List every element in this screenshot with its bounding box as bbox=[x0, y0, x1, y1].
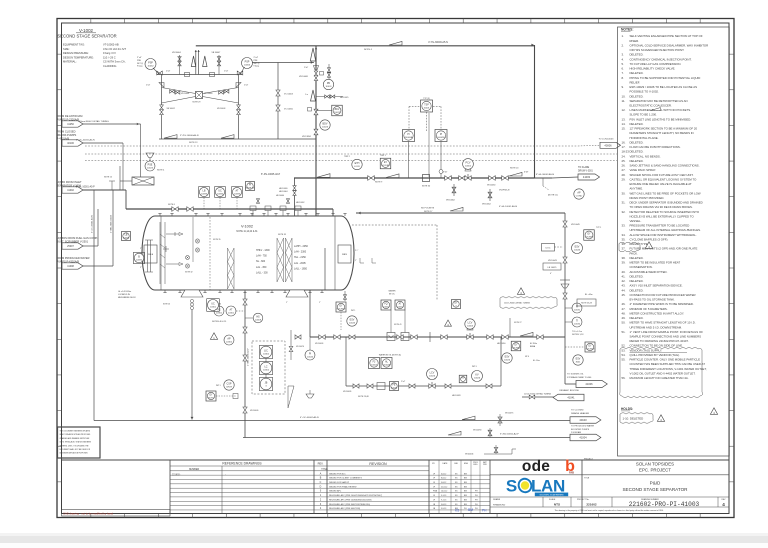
oil header spec break bbox=[429, 332, 431, 342]
svg-text:RE-ISSUED AFC (PRN 3087/118/TB: RE-ISSUED AFC (PRN 3087/118/TB/84/130) bbox=[329, 503, 370, 506]
svg-text:1 in: 1 in bbox=[305, 94, 308, 96]
sussex branch bbox=[564, 337, 566, 384]
svg-text:NUMBER: NUMBER bbox=[189, 468, 200, 471]
instrument bbox=[572, 243, 583, 254]
instrument (square) bbox=[332, 105, 343, 116]
svg-text:25.: 25. bbox=[622, 159, 626, 163]
valve bbox=[160, 109, 164, 114]
inlet line drop bbox=[125, 190, 127, 209]
castell interlock box bbox=[196, 92, 203, 99]
interlock crossover lower right bbox=[203, 97, 239, 104]
vessel saddle supports bbox=[181, 290, 308, 297]
svg-text:10025: 10025 bbox=[147, 168, 154, 170]
svg-text:PI: PI bbox=[440, 134, 443, 136]
svg-text:10301: 10301 bbox=[216, 313, 223, 315]
svg-text:10002: 10002 bbox=[465, 166, 472, 168]
svg-text:OPTIONAL COLD-SERVICE DISALARM: OPTIONAL COLD-SERVICE DISALARMER, WAX IN… bbox=[630, 43, 709, 47]
svg-text:DRAWN: DRAWN bbox=[493, 498, 501, 501]
svg-text:41004: 41004 bbox=[579, 436, 587, 440]
svg-text:NOTE 35: NOTE 35 bbox=[278, 234, 286, 236]
svg-text:VB 10026: VB 10026 bbox=[343, 391, 351, 393]
instrument (square) bbox=[435, 130, 447, 142]
instrument (square) bbox=[459, 375, 467, 383]
instrument (square) bbox=[511, 341, 521, 351]
valve bbox=[157, 71, 163, 75]
instrument air dashed bus third bbox=[85, 160, 617, 162]
svg-text:LOCKED: LOCKED bbox=[337, 308, 346, 310]
svg-text:11.: 11. bbox=[622, 99, 626, 103]
instrument (square) bbox=[421, 100, 433, 112]
instrument (square) bbox=[380, 158, 391, 169]
signal drop B bbox=[440, 142, 442, 179]
svg-text:RISER.: RISER. bbox=[630, 39, 640, 43]
valve body bbox=[467, 335, 473, 340]
ode logo bbox=[522, 458, 550, 475]
svg-text:ENG: ENG bbox=[464, 463, 469, 465]
svg-text:14-9-12: 14-9-12 bbox=[441, 491, 447, 493]
svg-text:RE-ISSUED AFC (PRN 10047/CB/09: RE-ISSUED AFC (PRN 10047/CB/09/04/217/02… bbox=[329, 494, 382, 497]
PSV discharge header bbox=[157, 74, 242, 76]
svg-text:30.: 30. bbox=[622, 191, 626, 195]
svg-text:LAHH - 2450: LAHH - 2450 bbox=[294, 245, 308, 248]
valve bbox=[237, 105, 241, 110]
slope symbol bbox=[221, 135, 234, 139]
svg-text:2"x4": 2"x4" bbox=[146, 85, 151, 87]
revision triangle bbox=[645, 242, 652, 249]
svg-text:TO PRODUCED WATER: TO PRODUCED WATER bbox=[571, 425, 595, 428]
svg-text:ISSUED FOR CLIENT COMMENTS: ISSUED FOR CLIENT COMMENTS bbox=[329, 478, 362, 480]
svg-text:TITLE: TITLE bbox=[584, 477, 590, 479]
svg-text:VB 10060: VB 10060 bbox=[204, 93, 212, 95]
instrument (square) bbox=[452, 300, 461, 309]
svg-text:VENDOR (TAG) SUPPLY.: VENDOR (TAG) SUPPLY. bbox=[630, 348, 663, 352]
svg-text:SLOPE TO BE 1:200.: SLOPE TO BE 1:200. bbox=[630, 113, 658, 117]
right head drain stub bbox=[344, 291, 346, 301]
svg-text:56.: 56. bbox=[622, 376, 626, 380]
svg-text:9-9-13: 9-9-13 bbox=[441, 508, 446, 510]
svg-text:ESV: ESV bbox=[505, 356, 510, 359]
svg-text:DECK UNDER SEPARATOR IS BUNDED: DECK UNDER SEPARATOR IS BUNDED AND DRAIN… bbox=[630, 201, 703, 205]
svg-text:10045: 10045 bbox=[349, 323, 356, 325]
svg-text:UPSTREAM OF ALL INTERNAL GRATI: UPSTREAM OF ALL INTERNAL GRATINGS /BAFFL… bbox=[630, 228, 702, 232]
svg-text:TITLE: TITLE bbox=[321, 468, 328, 471]
vessel right sump box WB'B bbox=[338, 245, 351, 263]
svg-text:10004: 10004 bbox=[371, 364, 378, 366]
svg-text:NOTES:: NOTES: bbox=[621, 27, 633, 31]
vent triangle bbox=[191, 56, 195, 67]
svg-text:NOTE 15: NOTE 15 bbox=[104, 177, 112, 179]
svg-text:10095: 10095 bbox=[234, 194, 241, 196]
svg-text:ode: ode bbox=[522, 458, 550, 475]
svg-text:3.6m ID x10.0m S/T: 3.6m ID x10.0m S/T bbox=[103, 47, 126, 51]
svg-text:UC: UC bbox=[218, 190, 222, 193]
svg-text:NOTE 6: NOTE 6 bbox=[168, 204, 175, 206]
bypass valve column bbox=[328, 64, 330, 84]
svg-text:DELETED.: DELETED. bbox=[630, 71, 644, 75]
PSV 10062 instrument bbox=[145, 59, 156, 70]
svg-text:4"-OC-40002-A5-N: 4"-OC-40002-A5-N bbox=[300, 416, 319, 419]
valve bbox=[563, 221, 567, 227]
antifoam line bbox=[83, 123, 141, 125]
svg-text:PI: PI bbox=[407, 134, 410, 136]
svg-text:10026: 10026 bbox=[391, 387, 398, 389]
closed drains line bbox=[83, 142, 123, 144]
svg-text:HIGH RELIABILITY CHECK VALVE.: HIGH RELIABILITY CHECK VALVE. bbox=[630, 67, 676, 71]
funnel on right drop bbox=[561, 284, 569, 288]
svg-text:LAH - 750: LAH - 750 bbox=[256, 255, 267, 258]
signal riser TSP bbox=[426, 112, 428, 131]
revision triangle bbox=[657, 415, 664, 422]
revision table rows bbox=[320, 472, 479, 510]
svg-text:ENSURE ONE RELIEF VALVE IS AVA: ENSURE ONE RELIEF VALVE IS AVAILABLE AT bbox=[630, 182, 692, 186]
svg-text:PRESSURE TRANSMITTER TO BE LOC: PRESSURE TRANSMITTER TO BE LOCATED bbox=[630, 224, 690, 228]
PCV 10002 pilot bbox=[463, 159, 474, 170]
gas outlet header line bbox=[196, 45, 534, 47]
svg-text:NOTE 20: NOTE 20 bbox=[510, 168, 519, 170]
interlock crossover upper left bbox=[162, 88, 196, 94]
svg-text:VB 30007: VB 30007 bbox=[212, 52, 222, 54]
svg-text:TI: TI bbox=[576, 320, 578, 323]
CAD drawing warning box bbox=[62, 510, 171, 517]
svg-text:CSP: CSP bbox=[227, 383, 232, 386]
valve bbox=[397, 335, 403, 340]
svg-text:BEMA: BEMA bbox=[530, 345, 536, 348]
valve bbox=[487, 335, 493, 340]
instrument (square) bbox=[395, 300, 405, 310]
svg-text:ESH-10029 / 10026 TO BE LOCATE: ESH-10029 / 10026 TO BE LOCATED AS CLOSE… bbox=[630, 85, 698, 89]
svg-text:TSP: TSP bbox=[424, 105, 429, 107]
svg-text:NOTES 40 & 51: NOTES 40 & 51 bbox=[212, 321, 227, 323]
svg-text:LAL - 2005: LAL - 2005 bbox=[294, 262, 306, 265]
relief header line bbox=[159, 138, 316, 140]
svg-text:This drawing is the property o: This drawing is the property of ODE and … bbox=[555, 509, 664, 512]
svg-text:REVISION: REVISION bbox=[369, 462, 387, 466]
source flag: from closed drains pumps bbox=[57, 130, 84, 147]
flare drop line bbox=[534, 45, 536, 178]
svg-text:10301: 10301 bbox=[228, 313, 235, 315]
gas outlet riser bbox=[315, 46, 317, 217]
svg-text:VB 10043: VB 10043 bbox=[548, 260, 558, 262]
instrument bbox=[207, 299, 220, 312]
svg-text:49.: 49. bbox=[622, 316, 626, 320]
vessel right head seam bbox=[334, 216, 336, 290]
svg-text:METER TO HAVE STRAIGHT LENGTHS: METER TO HAVE STRAIGHT LENGTHS OF 10 I.D… bbox=[630, 321, 696, 325]
svg-text:9-8-13: 9-8-13 bbox=[441, 504, 446, 506]
svg-text:2"-WD-40013-A0-N: 2"-WD-40013-A0-N bbox=[110, 215, 113, 233]
svg-text:1-10. DELETED: 1-10. DELETED bbox=[623, 417, 644, 421]
svg-text:HB 10044: HB 10044 bbox=[279, 191, 287, 193]
svg-text:10003: 10003 bbox=[467, 326, 474, 328]
HB 10025 branch bbox=[316, 96, 343, 98]
inner border frame bbox=[62, 23, 730, 514]
svg-text:DETECTOR RELATED TO SOURCE INS: DETECTOR RELATED TO SOURCE INSERTED INTO bbox=[630, 210, 700, 214]
svg-text:OR H2S SCAVENGER INJECTION POI: OR H2S SCAVENGER INJECTION POINT. bbox=[630, 48, 685, 52]
svg-text:10302: 10302 bbox=[263, 370, 270, 372]
valve bbox=[563, 257, 567, 263]
svg-text:PSE: PSE bbox=[148, 164, 153, 167]
svg-text:NOTE 17: NOTE 17 bbox=[424, 211, 433, 213]
svg-text:NOTE 4: NOTE 4 bbox=[364, 49, 373, 51]
instrument (square) bbox=[390, 382, 399, 391]
detail tubing revision cloud bbox=[500, 297, 557, 309]
valve bbox=[445, 176, 452, 181]
svg-text:38.: 38. bbox=[622, 256, 626, 260]
svg-text:LOCATED IN: LOCATED IN bbox=[118, 293, 130, 296]
svg-text:SCALE: SCALE bbox=[549, 498, 556, 501]
svg-text:HB 10030: HB 10030 bbox=[279, 188, 287, 190]
svg-text:52.: 52. bbox=[622, 344, 626, 348]
svg-text:COND: COND bbox=[576, 196, 583, 198]
svg-text:BL +45m: BL +45m bbox=[585, 294, 593, 296]
valve bbox=[314, 129, 318, 135]
svg-text:2"x4": 2"x4" bbox=[244, 85, 249, 87]
svg-text:DELETED.: DELETED. bbox=[630, 288, 644, 292]
valve bbox=[488, 192, 492, 198]
svg-text:21-9-12: 21-9-12 bbox=[441, 486, 447, 488]
svg-text:UPSTREAM AND 5 I.D. DOWNSTREAM: UPSTREAM AND 5 I.D. DOWNSTREAM. bbox=[630, 325, 683, 329]
valve bbox=[349, 335, 355, 339]
svg-text:4: 4 bbox=[722, 502, 725, 507]
svg-text:ISSUED FOR FINAL REVIEW: ISSUED FOR FINAL REVIEW bbox=[329, 485, 357, 488]
valve bbox=[494, 447, 498, 452]
svg-text:WB'A: WB'A bbox=[148, 253, 154, 256]
instrument (square) bbox=[246, 182, 256, 191]
svg-text:29.: 29. bbox=[622, 177, 626, 181]
vent triangle bbox=[311, 90, 316, 101]
valve bbox=[502, 335, 508, 340]
svg-text:10062: 10062 bbox=[147, 66, 154, 68]
valve bbox=[537, 335, 543, 340]
svg-text:221602: 221602 bbox=[586, 502, 597, 506]
svg-text:48.: 48. bbox=[622, 311, 626, 315]
svg-text:P.HAMMOND: P.HAMMOND bbox=[493, 504, 506, 507]
svg-text:REFERENCE DRAWINGS: REFERENCE DRAWINGS bbox=[222, 462, 262, 466]
svg-text:BY-PASS TO OIL STORAGE TANK.: BY-PASS TO OIL STORAGE TANK. bbox=[630, 298, 676, 302]
svg-text:PIPING TO BE SUPPORTED FOR POT: PIPING TO BE SUPPORTED FOR POTENTIAL LIQ… bbox=[630, 76, 701, 80]
valve bbox=[160, 105, 164, 110]
valve bbox=[243, 299, 247, 305]
source flag: organic biocide bbox=[553, 394, 584, 401]
instrument bbox=[259, 377, 272, 390]
valve bbox=[276, 90, 280, 96]
svg-text:VB 10090: VB 10090 bbox=[473, 430, 481, 432]
FO circle on signal drop bbox=[439, 170, 443, 174]
svg-text:ELECTROSTATIC COALESCER.: ELECTROSTATIC COALESCER. bbox=[630, 104, 672, 108]
revision triangle bbox=[210, 333, 217, 340]
svg-text:S: S bbox=[506, 477, 517, 496]
svg-text:3041: 3041 bbox=[576, 362, 582, 364]
instrument air dashed bus lower bbox=[85, 153, 617, 155]
valve bbox=[334, 335, 340, 340]
svg-text:STORAGE TANK T-1400: STORAGE TANK T-1400 bbox=[567, 376, 592, 379]
svg-text:TO FUTURE LLP GAS COMPRESSION.: TO FUTURE LLP GAS COMPRESSION. bbox=[630, 62, 682, 66]
svg-text:PH: PH bbox=[482, 509, 487, 513]
valve bbox=[459, 176, 466, 181]
svg-text:WATER IN OIL (NOTE 41): WATER IN OIL (NOTE 41) bbox=[379, 354, 402, 357]
instrument bbox=[215, 187, 226, 198]
instrument (square) bbox=[369, 358, 380, 369]
vessel top gauge stubs bbox=[250, 206, 301, 216]
instrument (square) bbox=[585, 342, 595, 352]
notes list bbox=[622, 34, 709, 380]
svg-text:12" PIPEWORK SECTION TO BE A M: 12" PIPEWORK SECTION TO BE A MINIMUM OF … bbox=[630, 127, 698, 131]
spec break on drop bbox=[560, 279, 570, 281]
valve bbox=[498, 417, 502, 423]
svg-text:10023: 10023 bbox=[334, 112, 341, 114]
vent triangle bbox=[203, 56, 207, 67]
vessel internals - cyclone baffles bbox=[228, 238, 293, 289]
svg-text:ESV: ESV bbox=[575, 246, 580, 249]
svg-text:VC 10003: VC 10003 bbox=[284, 94, 294, 96]
svg-text:WATER: WATER bbox=[389, 290, 397, 293]
svg-text:45.: 45. bbox=[622, 293, 626, 297]
svg-text:9-1-13: 9-1-13 bbox=[441, 495, 446, 497]
vessel spray nozzles bbox=[185, 217, 199, 268]
svg-text:DESIGN PRESSURE:: DESIGN PRESSURE: bbox=[63, 51, 89, 55]
svg-text:NOTE 29,48: NOTE 29,48 bbox=[358, 396, 369, 398]
svg-text:33.: 33. bbox=[622, 224, 626, 228]
svg-text:HV: HV bbox=[461, 378, 465, 380]
instrument (square) bbox=[584, 230, 595, 241]
valve bbox=[486, 384, 492, 388]
svg-text:RELIEF.: RELIEF. bbox=[630, 80, 641, 84]
equipment data table bbox=[63, 43, 126, 69]
instrument bbox=[573, 355, 583, 365]
valve bbox=[409, 384, 415, 388]
instrument (square) bbox=[381, 300, 391, 310]
svg-text:DRAINS PUMPS: DRAINS PUMPS bbox=[57, 133, 77, 137]
valve bbox=[289, 346, 293, 351]
PSV 10063 instrument bbox=[242, 58, 253, 69]
dashed detector drop bbox=[436, 225, 438, 300]
svg-text:QUILL PROVIDED BY VENDOR (TAG): QUILL PROVIDED BY VENDOR (TAG). bbox=[630, 353, 681, 357]
svg-text:6"-WD-40002-A2-P: 6"-WD-40002-A2-P bbox=[500, 433, 519, 436]
svg-text:HORIZONTAL PLANE.: HORIZONTAL PLANE. bbox=[630, 136, 659, 140]
valve bbox=[445, 384, 451, 388]
valve bbox=[488, 430, 492, 436]
svg-text:WP 3: WP 3 bbox=[472, 366, 477, 368]
svg-text:VB 10009: VB 10009 bbox=[250, 410, 258, 412]
svg-text:LOCKED: LOCKED bbox=[586, 348, 595, 350]
valve bbox=[319, 335, 325, 340]
svg-text:10005: 10005 bbox=[397, 306, 404, 308]
svg-text:VB 13834: VB 13834 bbox=[302, 136, 312, 138]
svg-text:1.: 1. bbox=[622, 34, 625, 38]
instrument bbox=[572, 303, 582, 313]
revision triangle bbox=[517, 288, 524, 295]
SOLAN logo bbox=[506, 477, 568, 497]
svg-text:LCV: LCV bbox=[430, 372, 435, 375]
svg-text:12mm-9000# DETAIL TUBING: 12mm-9000# DETAIL TUBING bbox=[79, 120, 109, 123]
svg-text:SELF-VENTING ENLARGED PIPE SEC: SELF-VENTING ENLARGED PIPE SECTION AT TO… bbox=[630, 34, 703, 38]
LCV 10026 pilot bbox=[427, 369, 438, 380]
svg-text:LB: LB bbox=[203, 190, 206, 193]
svg-text:NOTES 1,53: NOTES 1,53 bbox=[572, 334, 584, 336]
svg-text:NOTE: NOTE bbox=[208, 397, 214, 399]
spectacle blind right bbox=[236, 83, 241, 88]
valve bbox=[452, 187, 456, 193]
svg-text:NOTE 35: NOTE 35 bbox=[213, 239, 221, 241]
svg-text:DRAIN POINT PROVIDED.: DRAIN POINT PROVIDED. bbox=[630, 196, 665, 200]
svg-text:FROM DE ANTIFOAM: FROM DE ANTIFOAM bbox=[57, 114, 83, 118]
svg-text:VB 40004: VB 40004 bbox=[465, 454, 473, 456]
svg-text:RE-ISSUED AFC (PRN 10084/08/45: RE-ISSUED AFC (PRN 10084/08/45/42/22/09) bbox=[329, 498, 372, 501]
spectacle blind left bbox=[159, 83, 164, 88]
svg-text:REV.: REV. bbox=[318, 462, 324, 466]
svg-text:41003: 41003 bbox=[583, 175, 591, 179]
svg-text:PI: PI bbox=[249, 185, 252, 187]
svg-text:NOTE 53,28: NOTE 53,28 bbox=[581, 303, 592, 305]
svg-text:ANYTIME.: ANYTIME. bbox=[630, 187, 644, 191]
svg-text:EQUIPMENT TAG:: EQUIPMENT TAG: bbox=[63, 43, 85, 47]
sand riser right bbox=[509, 318, 511, 337]
svg-text:KV: KV bbox=[475, 374, 479, 377]
right outer riser bbox=[238, 75, 240, 140]
produced water booster line bbox=[243, 437, 570, 439]
svg-text:41006: 41006 bbox=[585, 382, 593, 386]
svg-text:SAND JETTING & SAND HANDLING C: SAND JETTING & SAND HANDLING CONNECTIONS… bbox=[630, 164, 700, 168]
svg-text:41008: 41008 bbox=[67, 265, 74, 268]
svg-text:ADJUSTABLE WEIR FITTED.: ADJUSTABLE WEIR FITTED. bbox=[630, 270, 668, 274]
svg-text:10301: 10301 bbox=[210, 307, 217, 309]
svg-text:12.: 12. bbox=[622, 108, 626, 112]
svg-text:HB 10028: HB 10028 bbox=[452, 395, 460, 397]
svg-text:DELETED.: DELETED. bbox=[630, 94, 644, 98]
svg-text:2"x4": 2"x4" bbox=[166, 71, 171, 73]
svg-text:LC: LC bbox=[264, 366, 267, 369]
destination flag: to produced water booster pumps bbox=[570, 434, 601, 441]
fuel gas liquids line bbox=[83, 245, 98, 247]
valve bbox=[276, 105, 280, 111]
svg-text:NTS: NTS bbox=[554, 502, 560, 506]
svg-text:18-23: 18-23 bbox=[622, 150, 630, 154]
svg-text:METER CONSTRUCTED IN MATT ALLO: METER CONSTRUCTED IN MATT ALLOY. bbox=[630, 311, 685, 315]
vessel left head seam bbox=[160, 216, 162, 290]
DOC box bbox=[542, 244, 555, 252]
source flag: from produced water pumps bbox=[57, 256, 90, 269]
svg-text:EPC. PROJECT: EPC. PROJECT bbox=[639, 467, 671, 472]
inlet nozzle internals bbox=[163, 231, 183, 266]
svg-text:METER TO BE INSULATED FOR HEAT: METER TO BE INSULATED FOR HEAT bbox=[630, 261, 681, 265]
valve body bbox=[465, 176, 471, 181]
svg-text:27.: 27. bbox=[622, 168, 626, 172]
svg-text:34.: 34. bbox=[622, 233, 626, 237]
instrument bbox=[259, 345, 272, 358]
sand jetting drop line bbox=[191, 306, 193, 420]
svg-text:DELETED.: DELETED. bbox=[630, 150, 644, 154]
svg-text:10026: 10026 bbox=[474, 378, 481, 380]
svg-text:TRIP 1: TRIP 1 bbox=[380, 155, 386, 157]
loop inline box bbox=[377, 383, 385, 390]
injection quill box bbox=[132, 177, 154, 185]
svg-text:12mm-9000#-DETAIL TUBING: 12mm-9000#-DETAIL TUBING bbox=[504, 302, 530, 305]
svg-text:NOTE 29: NOTE 29 bbox=[193, 102, 201, 104]
svg-text:EY: EY bbox=[339, 306, 343, 308]
svg-text:V-1002 OIL OUTLET AND V-4402 W: V-1002 OIL OUTLET AND V-4402 WATER OUTLE… bbox=[630, 371, 696, 375]
svg-text:SPACER SPOOL FOR FUTURE AXSY C: SPACER SPOOL FOR FUTURE AXSY CER UNIT. bbox=[630, 173, 694, 177]
svg-text:41041: 41041 bbox=[567, 396, 575, 400]
svg-text:LB: LB bbox=[125, 235, 128, 237]
title block structure bbox=[170, 460, 582, 514]
svg-text:LIC: LIC bbox=[264, 350, 268, 353]
svg-text:9-7-13: 9-7-13 bbox=[441, 499, 446, 501]
instrument (square) bbox=[336, 302, 346, 312]
svg-text:SECOND STAGE SEPARATOR: SECOND STAGE SEPARATOR bbox=[57, 34, 116, 39]
svg-text:10002B: 10002B bbox=[437, 137, 445, 139]
svg-text:VB 30004: VB 30004 bbox=[172, 52, 182, 54]
vessel bottom nozzles bbox=[163, 290, 323, 293]
instrument air dashed bus upper bbox=[85, 145, 578, 147]
